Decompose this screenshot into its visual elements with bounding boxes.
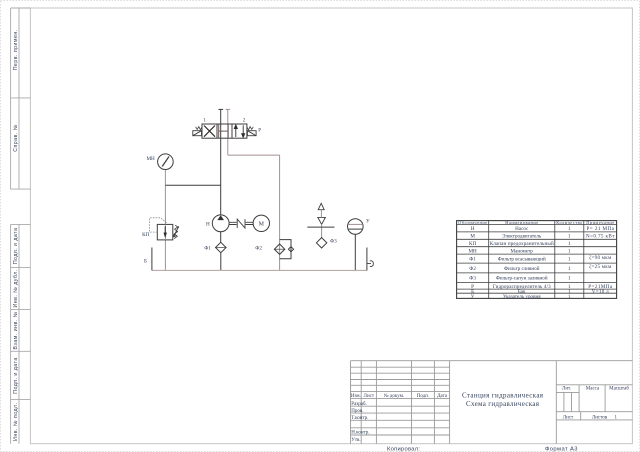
svg-text:Электродвигатель: Электродвигатель [502,234,542,240]
svg-text:Фильтр сливной: Фильтр сливной [504,265,540,272]
wire branch gauge to pump line [165,184,220,186]
svg-text:Н: Н [206,222,210,228]
relief valve KP spring [174,225,178,238]
svg-text:Станция гидравлическая: Станция гидравлическая [462,392,544,400]
svg-text:Ф3: Ф3 [330,239,337,245]
svg-text:Разраб.: Разраб. [351,402,367,407]
filter F2 bypass loop [280,240,291,259]
motor M circle [253,215,269,231]
svg-text:Фильтр всасывающий: Фильтр всасывающий [498,256,546,263]
valve left position crossed arrows [204,126,215,137]
filter F2 diamond [274,244,284,254]
svg-text:Ф2: Ф2 [469,266,476,272]
svg-text:V=10 л: V=10 л [592,289,609,295]
svg-text:1: 1 [568,248,571,254]
svg-text:Утв.: Утв. [351,438,360,443]
svg-text:Примечание: Примечание [586,220,614,225]
left margin column group top [11,8,31,189]
svg-text:Лит.: Лит. [562,387,571,392]
left margin column group bottom [11,224,31,443]
valve R body [202,124,247,138]
svg-text:Фильтр-сапун заливной: Фильтр-сапун заливной [496,275,548,282]
svg-text:Насос: Насос [515,226,529,232]
parts table rows [468,226,615,300]
level indicator U chords [348,223,363,225]
svg-text:1: 1 [568,276,571,282]
svg-text:Формат А3: Формат А3 [545,446,578,452]
svg-text:ζ=90 мкм: ζ=90 мкм [589,254,612,261]
wire level indicator to tank [354,234,356,270]
svg-text:Ф2: Ф2 [255,245,262,251]
svg-text:1: 1 [568,294,571,300]
relief valve KP through line [164,224,166,240]
svg-text:1: 1 [568,226,571,232]
wire gauge line MN to tank (brown) [164,170,166,271]
breather F3 upper triangle [318,203,324,209]
svg-text:Ф1: Ф1 [204,245,211,251]
svg-text:Перв. примен.: Перв. примен. [13,29,19,70]
svg-text:Схема гидравлическая: Схема гидравлическая [466,400,540,408]
svg-text:МН: МН [146,156,155,162]
svg-text:P= 21 МПа: P= 21 МПа [586,226,614,232]
wire pump to filter F1 [220,232,222,243]
svg-text:Копировал:: Копировал: [387,446,420,452]
tank B bottom line [152,269,367,271]
svg-text:Взам. инв. №: Взам. инв. № [13,311,19,349]
parts table grid [457,221,617,299]
valve left solenoid box [193,131,202,136]
breather F3 mounting plate [307,226,334,228]
svg-text:Подп. и дата: Подп. и дата [13,228,19,265]
svg-text:Дата: Дата [437,394,448,399]
svg-text:ζ=25 мкм: ζ=25 мкм [589,263,612,270]
pump N circle [212,215,229,232]
level indicator U circle [348,219,364,235]
svg-text:КП: КП [142,232,149,238]
relief valve KP body [157,224,173,240]
svg-text:1: 1 [568,234,571,240]
title block grid [351,361,633,444]
title block document name [462,392,544,408]
svg-text:У: У [471,294,475,300]
svg-text:Масса: Масса [586,387,600,392]
pump N triangle [217,215,224,220]
svg-text:Ф1: Ф1 [469,257,476,263]
valve right position arrows [234,125,244,137]
valve right spring [247,127,253,130]
parts table header text [458,220,614,225]
svg-text:Пров.: Пров. [351,409,363,414]
svg-text:Подп.: Подп. [417,394,429,399]
breather F3 stem [320,210,322,238]
svg-text:Инв. № дубл.: Инв. № дубл. [13,269,19,307]
filter F2 bypass check valve [288,247,293,252]
svg-text:Количество: Количество [556,220,583,225]
svg-text:М: М [470,234,475,240]
port B plug tick [226,108,231,110]
relief valve KP arrow [164,227,167,238]
relief valve KP adjust arrow [173,226,178,237]
svg-text:У: У [366,219,370,225]
svg-text:Н: Н [471,226,475,232]
svg-text:Справ. №: Справ. № [13,124,19,152]
svg-text:Клапан предохранительный: Клапан предохранительный [490,240,554,247]
svg-text:Листов: Листов [592,415,608,420]
wire return horizontal to filter F2 [228,154,280,156]
breather F3 lower triangle [318,217,326,224]
wire T valve to return line (brown vertical, plugged port B above) [227,109,229,155]
svg-text:Инв. № подл.: Инв. № подл. [13,403,19,441]
svg-text:МН: МН [468,248,477,254]
svg-text:КП: КП [469,241,476,247]
svg-text:Н.контр.: Н.контр. [351,431,369,436]
valve centre position H [219,124,229,138]
svg-text:Ф3: Ф3 [469,276,476,282]
port A plug tick [218,108,223,110]
svg-text:Подп. и дата: Подп. и дата [13,357,19,394]
tank B left wall [151,248,153,271]
svg-text:1: 1 [568,257,571,263]
title block header labels [351,387,629,443]
breather F3 filter diamond [316,238,326,248]
relief valve KP pilot dashed line [150,218,167,232]
svg-text:Лист: Лист [364,394,375,399]
filter F1 diamond [216,242,227,252]
svg-text:Наименование: Наименование [505,220,538,225]
tank B right wall [366,248,368,271]
wire P pump to valve (black vertical through valve, plugged port A above) [220,109,222,214]
valve left spring [196,127,202,130]
svg-text:1: 1 [568,241,571,247]
manometer MN [158,154,174,170]
wire filter F1 to tank [220,253,222,271]
svg-text:Масштаб: Масштаб [609,387,629,392]
svg-text:Изм.: Изм. [351,394,361,399]
svg-text:№ докум.: № докум. [384,393,404,399]
svg-text:Обозначение: Обозначение [458,220,487,225]
svg-text:1: 1 [568,266,571,272]
wire return vertical to tank through F2 [279,155,281,270]
svg-text:N=0.75 кВт: N=0.75 кВт [586,234,615,240]
svg-text:Б: Б [144,258,147,264]
tank drain plug [367,261,373,267]
svg-text:М: М [259,222,265,228]
svg-text:Т.контр.: Т.контр. [351,416,368,421]
svg-text:P: P [258,129,261,134]
svg-text:Манометр: Манометр [511,248,534,254]
coupling pump-motor [229,219,253,228]
svg-text:Лист: Лист [563,415,574,420]
valve right solenoid box [247,131,256,136]
svg-text:Указатель уровня: Указатель уровня [503,294,541,300]
